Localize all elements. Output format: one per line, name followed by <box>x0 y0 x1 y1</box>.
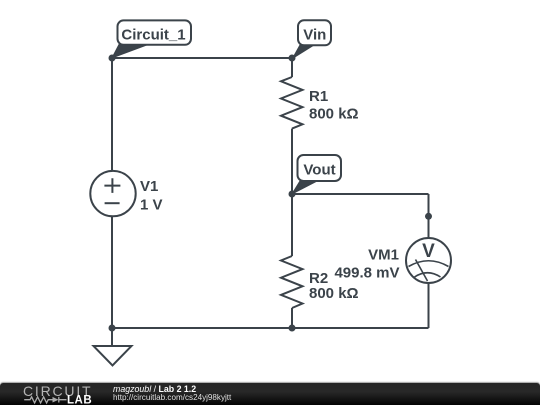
resistor R1 zigzag <box>281 77 303 129</box>
svg-text:Vout: Vout <box>303 162 335 179</box>
V1 plus sign <box>104 178 120 193</box>
voltage source V1 circle <box>90 171 135 216</box>
junction dot Circuit_1 node <box>109 55 116 62</box>
svg-text:V: V <box>422 241 435 262</box>
node callout Vout box <box>298 155 342 181</box>
junction dot Vout node <box>289 191 296 198</box>
footer credit line <box>113 384 196 394</box>
ground symbol triangle <box>94 346 132 366</box>
svg-text:V1: V1 <box>140 178 158 195</box>
wire left vertical upper (node to V1 top) <box>111 58 113 172</box>
voltmeter needle <box>416 260 428 282</box>
svg-text:Vin: Vin <box>303 26 326 43</box>
wire top horizontal Circuit_1 to Vin <box>112 57 292 59</box>
voltmeter VM1 circle <box>406 238 451 283</box>
svg-text:R1: R1 <box>309 88 328 105</box>
footer url line <box>113 393 231 403</box>
svg-text:499.8 mV: 499.8 mV <box>334 264 399 281</box>
wire bottom rail <box>112 327 429 329</box>
svg-text:1 V: 1 V <box>140 196 163 213</box>
CircuitLab logo <box>18 383 118 405</box>
svg-text:800 kΩ: 800 kΩ <box>309 285 359 302</box>
wire Vout node to R2 top <box>291 194 293 256</box>
wire right vertical Vin to R1 top <box>291 58 293 77</box>
resistor R2 zigzag <box>281 256 303 308</box>
voltmeter big scale arc <box>409 261 449 267</box>
junction dot bottom rail R2 <box>289 325 296 332</box>
wire Vout horizontal to voltmeter branch <box>292 193 429 195</box>
wire ground stem <box>111 328 113 346</box>
node callout Circuit_1 box <box>118 20 192 44</box>
node callout Vin tail <box>293 45 315 59</box>
svg-text:800 kΩ: 800 kΩ <box>309 106 359 123</box>
svg-text:VM1: VM1 <box>368 246 399 263</box>
svg-text:LAB: LAB <box>67 395 92 405</box>
junction dot Vin node <box>289 55 296 62</box>
footer bar <box>0 383 540 405</box>
node callout Vin box <box>298 20 331 45</box>
wire voltmeter branch vertical top <box>428 194 430 238</box>
wire R1 bottom to Vout node <box>291 129 293 194</box>
wire left vertical lower (V1 bottom to bottom rail) <box>111 216 113 328</box>
junction dot voltmeter branch <box>425 213 432 220</box>
V1 minus sign <box>105 202 120 204</box>
junction dot bottom rail left <box>109 325 116 332</box>
svg-text:Circuit_1: Circuit_1 <box>121 27 185 44</box>
node callout Circuit_1 tail <box>112 45 148 59</box>
node callout Vout tail <box>292 181 317 194</box>
wire R2 bottom to bottom rail <box>291 308 293 328</box>
wire voltmeter bottom to bottom rail <box>428 283 430 328</box>
voltmeter small scale arc <box>415 273 441 277</box>
